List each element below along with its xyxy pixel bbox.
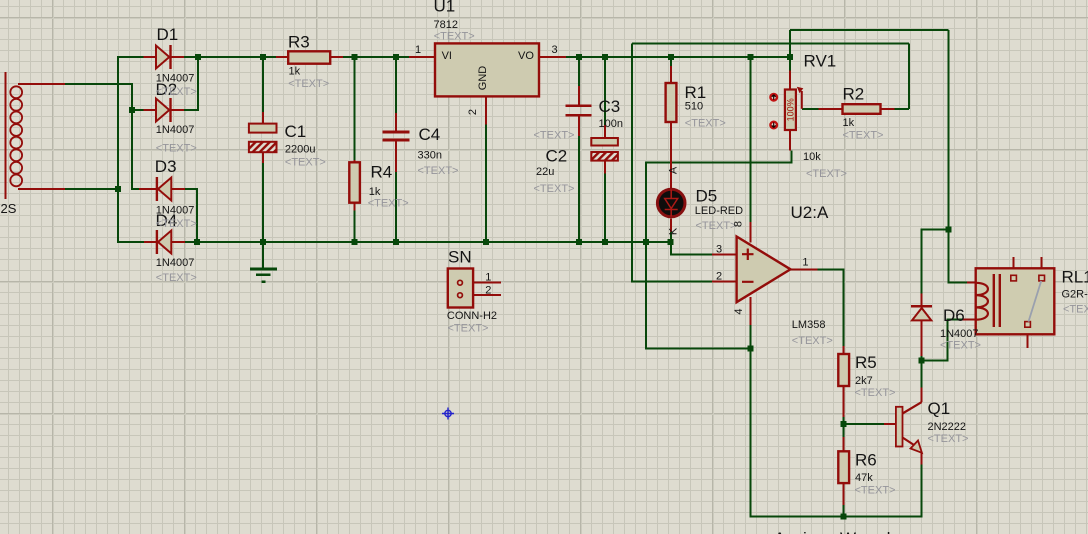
svg-text:2N2222: 2N2222	[928, 421, 967, 433]
svg-text:<TEXT>: <TEXT>	[792, 335, 833, 347]
svg-text:3: 3	[716, 244, 722, 256]
svg-text:<TEXT>: <TEXT>	[156, 143, 197, 155]
svg-text:U2:A: U2:A	[791, 203, 829, 222]
svg-text:D6: D6	[943, 306, 965, 325]
svg-text:i: i	[803, 529, 807, 534]
svg-text:W: W	[840, 529, 856, 534]
svg-text:<TEXT>: <TEXT>	[685, 118, 726, 130]
svg-text:2: 2	[467, 109, 479, 115]
svg-text:8: 8	[733, 221, 745, 227]
svg-text:<TEXT>: <TEXT>	[368, 198, 409, 210]
svg-text:G2R-1: G2R-1	[1062, 289, 1088, 301]
svg-text:A: A	[667, 166, 679, 174]
svg-text:100n: 100n	[599, 118, 623, 130]
svg-text:<TEXT>: <TEXT>	[418, 165, 459, 177]
svg-text:C2: C2	[546, 147, 568, 166]
svg-text:D1: D1	[157, 25, 179, 44]
svg-text:1: 1	[802, 257, 808, 269]
svg-text:LM358: LM358	[792, 319, 826, 331]
svg-text:VI: VI	[442, 50, 452, 62]
svg-text:GND: GND	[477, 66, 489, 91]
svg-text:A: A	[774, 529, 786, 534]
svg-text:<TEXT>: <TEXT>	[696, 220, 737, 232]
svg-text:1N4007: 1N4007	[156, 73, 195, 85]
svg-text:22u: 22u	[536, 166, 554, 178]
svg-text:3: 3	[552, 44, 558, 56]
svg-text:<TEX: <TEX	[1063, 304, 1088, 316]
svg-text:<TEXT>: <TEXT>	[534, 130, 575, 142]
svg-text:<TEXT>: <TEXT>	[855, 485, 896, 497]
svg-text:1N4007: 1N4007	[156, 205, 195, 217]
svg-text:<TEXT>: <TEXT>	[285, 157, 326, 169]
svg-text:1: 1	[485, 271, 491, 283]
svg-text:SN: SN	[448, 248, 472, 267]
svg-text:2: 2	[485, 284, 491, 296]
svg-text:U1: U1	[434, 0, 456, 16]
svg-text:R2: R2	[843, 85, 865, 104]
svg-text:C4: C4	[419, 125, 441, 144]
svg-text:LED-RED: LED-RED	[695, 205, 743, 217]
svg-text:R6: R6	[855, 451, 877, 470]
svg-text:<TEXT>: <TEXT>	[448, 323, 489, 335]
svg-text:R4: R4	[371, 163, 393, 182]
svg-text:<TEXT>: <TEXT>	[156, 218, 197, 230]
svg-text:RL1: RL1	[1062, 268, 1088, 287]
svg-text:d: d	[881, 529, 890, 534]
svg-text:7812: 7812	[434, 19, 458, 31]
svg-text:D5: D5	[696, 187, 718, 206]
svg-text:1N4007: 1N4007	[156, 257, 195, 269]
svg-text:<TEXT>: <TEXT>	[288, 78, 329, 90]
svg-text:1k: 1k	[369, 186, 381, 198]
svg-text:CONN-H2: CONN-H2	[447, 310, 497, 322]
svg-text:2: 2	[716, 271, 722, 283]
svg-text:R1: R1	[685, 83, 707, 102]
svg-text:<TEXT>: <TEXT>	[855, 387, 896, 399]
svg-text:1N4007: 1N4007	[156, 124, 195, 136]
svg-text:C3: C3	[599, 97, 621, 116]
svg-text:<TEXT>: <TEXT>	[940, 340, 981, 352]
svg-text:D3: D3	[155, 157, 177, 176]
svg-text:1k: 1k	[843, 117, 855, 129]
svg-text:47k: 47k	[855, 472, 873, 484]
svg-text:R5: R5	[855, 353, 877, 372]
svg-text:RV1: RV1	[804, 52, 837, 71]
svg-text:<TEXT>: <TEXT>	[806, 168, 847, 180]
svg-text:<TEXT>: <TEXT>	[928, 433, 969, 445]
svg-text:510: 510	[685, 101, 703, 113]
svg-text:2k7: 2k7	[855, 375, 873, 387]
svg-text:R3: R3	[288, 33, 310, 52]
svg-text:1k: 1k	[289, 65, 301, 77]
svg-text:<TEXT>: <TEXT>	[156, 272, 197, 284]
svg-text:VO: VO	[518, 50, 534, 62]
svg-text:C1: C1	[285, 122, 307, 141]
svg-text:10k: 10k	[803, 151, 821, 163]
svg-text:2200u: 2200u	[285, 144, 316, 156]
svg-text:<TEXT>: <TEXT>	[843, 130, 884, 142]
svg-text:<TEXT>: <TEXT>	[534, 183, 575, 195]
svg-text:1: 1	[415, 44, 421, 56]
svg-text:Q1: Q1	[928, 399, 951, 418]
svg-text:<TEXT>: <TEXT>	[434, 31, 475, 43]
svg-text:K: K	[667, 227, 679, 235]
svg-text:<TEXT>: <TEXT>	[156, 86, 197, 98]
svg-text:100%: 100%	[785, 98, 795, 121]
svg-text:4: 4	[733, 308, 745, 314]
svg-text:2S: 2S	[1, 201, 17, 216]
svg-text:330n: 330n	[418, 150, 442, 162]
svg-text:1N4007: 1N4007	[940, 328, 979, 340]
